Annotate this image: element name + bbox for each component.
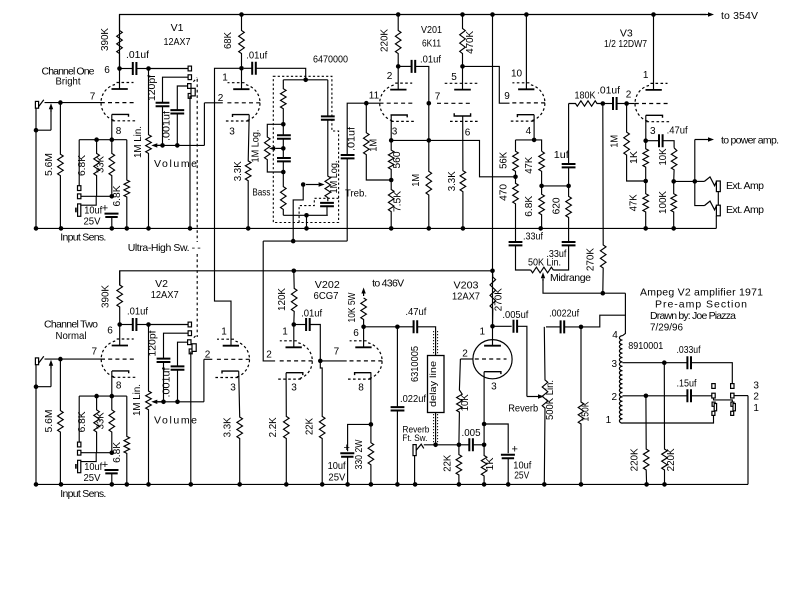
capacitor .01uf V201 interstage — [412, 60, 416, 73]
junction jack2 sleeve — [34, 384, 39, 389]
resistor 5.6M ch1 — [58, 103, 64, 229]
pole ultra-high switch ch1 — [188, 94, 191, 99]
gang link dash ch2 — [194, 334, 197, 338]
svg-text:3: 3 — [291, 383, 297, 394]
svg-text:2: 2 — [753, 391, 759, 402]
svg-text:V1: V1 — [171, 22, 184, 34]
capacitor 120pf ch1 — [156, 103, 170, 106]
svg-text:.001uf: .001uf — [161, 111, 172, 141]
junction mixer rail/treble — [291, 239, 296, 244]
resistor 330 2W — [368, 424, 374, 484]
wire contact B to 33K bottom — [81, 195, 112, 197]
junction ground1/jack — [34, 226, 39, 231]
junction bus2/33K — [110, 394, 115, 399]
svg-text:1M Log.: 1M Log. — [329, 161, 340, 194]
wire pot top to .0022uf — [546, 326, 561, 328]
wire mixer rail to V202a grid — [263, 241, 275, 361]
junction ground1/6.8K V201 — [538, 226, 543, 231]
wiper arrow bass — [275, 147, 281, 149]
wire out contact B to ground riser — [734, 395, 748, 397]
svg-text:1: 1 — [282, 327, 288, 338]
svg-text:Bass: Bass — [252, 187, 270, 199]
svg-text:3: 3 — [230, 383, 236, 394]
wire B+ rail 354V — [120, 15, 707, 69]
contact ultra-high A ch1 — [188, 66, 191, 71]
svg-text:to power amp.: to power amp. — [721, 135, 779, 147]
resistor 22K V203 — [456, 445, 462, 485]
svg-text:1K: 1K — [485, 457, 496, 471]
pole input-sens switch ch1 — [78, 204, 81, 216]
junction pin3/220K — [662, 360, 667, 365]
capacitor .001uf ch1 — [170, 110, 184, 113]
svg-text:47K: 47K — [629, 194, 640, 211]
wire plate V203 — [492, 326, 494, 345]
junction cathode V202b — [369, 422, 374, 427]
svg-text:11: 11 — [369, 91, 380, 102]
contact ultra-high C ch2 — [188, 340, 191, 345]
svg-text:6310005: 6310005 — [410, 345, 421, 382]
junction node2 V201 plate — [396, 64, 401, 69]
svg-text:390K: 390K — [101, 285, 112, 308]
svg-text:to 354V: to 354V — [721, 10, 758, 22]
capacitor tone C1 — [277, 135, 291, 138]
potentiometer 1M Log Treble — [325, 120, 331, 202]
junction B+ rail/120K — [292, 269, 297, 274]
junction 47K/6.8K — [539, 184, 544, 189]
svg-text:8: 8 — [358, 383, 364, 394]
wiper arrow treble — [306, 184, 319, 186]
wire grid V2b — [204, 358, 212, 360]
jack tip contact arrow — [50, 109, 52, 112]
svg-text:.15uf: .15uf — [677, 377, 697, 389]
wire treble wiper jog down — [293, 185, 303, 242]
junction ground2/2.2K — [284, 482, 289, 487]
junction node1 V1b plate — [239, 66, 244, 71]
svg-text:47K: 47K — [524, 156, 535, 173]
junction 120pf/wiper ch2 — [161, 400, 166, 405]
wire tone top bus — [283, 79, 328, 81]
wire contact C to .001uf ch2 — [178, 342, 188, 366]
wire reverb out to xfmr node — [581, 315, 625, 327]
wire grid V1b to wiper bus — [203, 103, 205, 146]
resistor 1K V203 — [481, 445, 487, 485]
svg-text:500K Lin.: 500K Lin. — [545, 380, 556, 420]
triode V201 third — [510, 83, 545, 121]
resistor 390K ch1 — [117, 15, 123, 69]
junction ground2/150K — [579, 482, 584, 487]
junction grid V202b/22K — [318, 359, 323, 364]
resistor 560 — [388, 140, 394, 180]
wire .15uf to contact — [692, 395, 712, 397]
svg-text:3: 3 — [229, 127, 235, 138]
svg-text:2.2K: 2.2K — [268, 417, 279, 437]
svg-text:56K: 56K — [499, 151, 510, 168]
capacitor .01uf ch2 coupling — [133, 318, 137, 331]
junction jack sleeve — [34, 128, 39, 133]
capacitor .022uf — [391, 407, 405, 410]
capacitor .01uf ch1 coupling — [133, 62, 137, 75]
wire cathode pin4 — [533, 115, 535, 140]
svg-text:22K: 22K — [443, 454, 454, 471]
svg-text:.47uf: .47uf — [667, 125, 688, 137]
junction grid V3/1M — [624, 101, 629, 106]
junction grid/5.6M — [58, 100, 63, 105]
svg-text:1: 1 — [606, 415, 612, 426]
svg-text:3: 3 — [612, 359, 618, 370]
resistor 6.8K V201 — [539, 186, 545, 229]
junction ground2/6.8K — [125, 482, 130, 487]
wire treble cap to V201 grid — [347, 103, 379, 155]
triode V1a — [101, 83, 136, 121]
wire .0022uf to 150K — [564, 326, 581, 328]
wire .005 to cathode chain — [473, 444, 484, 446]
coax shield upper — [434, 331, 438, 355]
wire cathode V201a — [390, 115, 392, 141]
wire pole ch2 to ground — [190, 352, 192, 485]
wire pole ch1 to ground — [189, 96, 191, 229]
gang line ultra-high upper — [196, 79, 198, 242]
svg-text:10K: 10K — [658, 148, 669, 165]
resistor 2.2K V202a cathode — [284, 373, 290, 485]
svg-text:10uf: 10uf — [328, 460, 346, 472]
capacitor .005 — [469, 438, 473, 451]
svg-text:3.3K: 3.3K — [233, 161, 244, 181]
wire cathode to 1K — [483, 424, 485, 445]
svg-text:7: 7 — [92, 347, 98, 358]
svg-text:33K: 33K — [95, 412, 106, 429]
wire node1 to cap — [244, 67, 252, 69]
svg-text:1: 1 — [753, 403, 759, 414]
svg-text:.005uf: .005uf — [502, 309, 528, 321]
wire cap to volume top — [136, 68, 148, 70]
svg-text:Ampeg V2 amplifier 1971: Ampeg V2 amplifier 1971 — [640, 287, 763, 299]
svg-text:7: 7 — [334, 347, 340, 358]
jack Ext Amp upper — [704, 177, 716, 186]
wire plate pin5 — [462, 66, 464, 89]
svg-text:V202: V202 — [315, 279, 340, 291]
svg-text:+: + — [102, 459, 108, 471]
svg-text:5: 5 — [451, 72, 457, 83]
wire ftsw jack to ground — [414, 456, 416, 485]
junction tone caps mid — [281, 146, 286, 151]
svg-text:1M Lin.: 1M Lin. — [132, 384, 143, 416]
resistor 7.5K — [388, 180, 394, 228]
wire bus2 to contact A — [78, 396, 80, 442]
resistor 220K a — [662, 363, 668, 485]
contact ultra-high B ch1 — [188, 75, 191, 80]
junction .001uf/wiper — [175, 143, 180, 148]
resistor 220K b — [643, 396, 649, 485]
contact input-sens B ch1 — [78, 194, 81, 199]
wire delay line output — [435, 413, 437, 445]
svg-text:1M Lin.: 1M Lin. — [133, 126, 144, 158]
pole out left — [712, 402, 715, 406]
contact input-sens B ch2 — [78, 450, 81, 455]
svg-text:1: 1 — [643, 70, 649, 81]
svg-text:Treb.: Treb. — [345, 187, 367, 199]
svg-text:.0022uf: .0022uf — [549, 307, 579, 319]
potentiometer 1M Lin Volume ch2 — [146, 325, 152, 485]
tube V203 envelope circle — [473, 340, 512, 379]
svg-text:Ft. Sw.: Ft. Sw. — [402, 433, 427, 444]
wire node2 to cap — [400, 65, 412, 67]
svg-text:120K: 120K — [277, 288, 288, 311]
dotted box tone network 6470000 — [273, 76, 338, 222]
wire ch2 B+ rail — [120, 271, 493, 285]
svg-text:1M: 1M — [609, 135, 620, 148]
delay line box — [428, 356, 445, 413]
svg-text:6.8K: 6.8K — [524, 195, 535, 216]
coax shield lower — [434, 414, 438, 444]
svg-text:150K: 150K — [581, 401, 592, 421]
wire node6 to cap ch2 — [121, 324, 133, 326]
capacitor tone C4 — [320, 203, 334, 206]
capacitor .33uf right — [562, 242, 576, 245]
wire cathode to 10uf V203 — [484, 424, 508, 453]
svg-text:220K: 220K — [380, 29, 391, 52]
capacitor 10uf 25V V202 — [340, 453, 354, 456]
svg-text:Input Sens.: Input Sens. — [60, 488, 106, 500]
svg-text:25V: 25V — [84, 216, 101, 228]
resistor 10K V3 — [671, 148, 677, 182]
svg-text:1/2 12DW7: 1/2 12DW7 — [604, 38, 647, 50]
wire .001uf to wiper ch2 — [177, 370, 179, 402]
potentiometer 500K Lin Reverb — [542, 327, 548, 485]
junction bus/33K ch1 — [110, 137, 115, 142]
svg-text:470: 470 — [499, 183, 510, 201]
junction 560/7.5K — [389, 178, 394, 183]
resistor 47K V201 — [539, 151, 545, 186]
svg-text:.01uf: .01uf — [420, 54, 441, 66]
svg-text:22K: 22K — [305, 418, 316, 435]
resistor 220K — [395, 15, 401, 67]
wire 620 chain to .33uf2 — [568, 228, 570, 242]
svg-text:2: 2 — [626, 90, 632, 101]
resistor 6.8K first ch1 — [94, 140, 100, 197]
wire xfmr pin1 to pole — [623, 415, 714, 423]
svg-text:8910001: 8910001 — [628, 340, 663, 352]
junction ground2/22K V203 — [457, 482, 462, 487]
svg-text:3.3K: 3.3K — [222, 417, 233, 437]
wire grid V1a pin7 — [45, 102, 102, 104]
svg-text:330 2W: 330 2W — [354, 439, 365, 470]
capacitor .005uf — [514, 320, 518, 333]
svg-text:7: 7 — [90, 92, 96, 103]
junction ground2/10uf V203 — [506, 482, 511, 487]
svg-text:2: 2 — [387, 71, 393, 82]
wire .033uf to contact — [692, 363, 732, 384]
svg-text:5.6M: 5.6M — [44, 410, 55, 433]
svg-text:6: 6 — [465, 128, 471, 139]
junction grid V201a — [364, 101, 369, 106]
junction ground1/7.5K — [389, 226, 394, 231]
junction ground1/5.6M — [59, 226, 64, 231]
capacitor .01uf V202 coupling — [306, 318, 310, 331]
capacitor tone C3 — [321, 116, 335, 119]
svg-text:100K: 100K — [658, 191, 669, 214]
svg-text:7: 7 — [435, 92, 441, 103]
svg-text:3: 3 — [491, 382, 497, 393]
junction node1 V203 plate — [490, 324, 495, 329]
junction node1 V202a plate — [292, 322, 297, 327]
wire grid V202b — [320, 360, 346, 362]
svg-text:4: 4 — [526, 126, 532, 137]
svg-text:6K11: 6K11 — [422, 37, 441, 49]
resistor 33K ch1 — [109, 140, 115, 197]
wire pole to 6.8K bottom ch2 — [81, 453, 96, 462]
jack2 tip contact arrow — [50, 366, 52, 369]
resistor 390K ch2 — [117, 271, 123, 325]
resistor 5.6M ch2 — [58, 359, 64, 484]
svg-text:.33uf: .33uf — [523, 231, 543, 243]
junction ground2/5.6M — [59, 482, 64, 487]
wire plate V2a — [119, 325, 121, 346]
wire tone C4 lead — [326, 206, 328, 215]
wire 10uf V203 to ground — [507, 458, 509, 484]
junction tone box top bus — [303, 78, 308, 83]
resistor 33K ch2 — [109, 396, 115, 453]
junction ground2/.022uf — [395, 482, 400, 487]
wire volume2 top to contact A — [150, 324, 188, 326]
svg-text:1: 1 — [480, 327, 486, 338]
wire ground rail ch1 — [36, 227, 716, 229]
wire jack2 sleeve — [36, 365, 51, 387]
wire 47K tap to 1uf — [542, 185, 569, 187]
junction pin4 cathode — [532, 138, 537, 143]
resistor 1M V3 grid — [624, 104, 646, 182]
junction node6 V202b plate — [361, 325, 366, 330]
contact out right A — [731, 384, 734, 389]
wire 1uf bottom lead — [568, 167, 570, 186]
wire pin4 to 47K — [534, 140, 542, 151]
wire grid V203 — [460, 358, 473, 360]
wire grid V1b — [204, 102, 222, 104]
svg-text:270K: 270K — [585, 248, 596, 271]
svg-text:+: + — [512, 444, 518, 456]
wire .005uf down to reverb wiper — [517, 326, 527, 396]
wire cap into tone box — [256, 68, 306, 80]
resistor 1K V3 — [643, 141, 649, 181]
svg-text:8: 8 — [116, 381, 122, 392]
svg-text:to 436V: to 436V — [372, 278, 404, 290]
capacitor .01uf V1b out — [252, 62, 256, 75]
wire riser to power amp — [694, 140, 696, 182]
arrow to 354V — [700, 14, 708, 16]
potentiometer 1M Lin Volume ch1 — [146, 69, 152, 229]
svg-text:50K Lin.: 50K Lin. — [528, 257, 561, 269]
junction bus/6.8K ch1 — [94, 137, 99, 142]
wire pin4 to 56K — [516, 139, 535, 141]
triode V201 middle — [437, 83, 479, 121]
junction ground1/100K — [671, 226, 676, 231]
wire ftsw to 10K bottom — [424, 444, 459, 446]
wire cathode V2a — [111, 371, 113, 396]
pole input-sens switch ch2 — [78, 460, 81, 472]
dotted inner box treble cap — [299, 198, 339, 222]
wire contact B to 120pf — [163, 77, 189, 102]
svg-text:3: 3 — [650, 126, 656, 137]
triode V2a — [101, 339, 136, 377]
wire V3 feed node down to xfmr pin4 — [623, 293, 626, 336]
jack Reverb Ft Sw — [413, 445, 416, 456]
wiper arrow reverb — [527, 396, 538, 398]
junction bus2/6.8K — [94, 394, 99, 399]
svg-text:120pf: 120pf — [147, 330, 158, 356]
wiper arrow volume ch2 — [157, 401, 163, 403]
triode V203 internals — [475, 346, 507, 374]
wiper arrow volume ch1 — [157, 144, 163, 146]
contact ultra-high A ch2 — [188, 322, 191, 327]
svg-text:470K: 470K — [465, 30, 476, 53]
triode V1b — [226, 83, 261, 121]
resistor 10K 5W — [361, 298, 367, 327]
wire grid V2b to wiper bus — [203, 359, 205, 402]
junction cathode V3 — [643, 138, 648, 143]
wire jack2 sleeve to ground — [35, 387, 37, 485]
wire wiper bus ch2 — [157, 401, 204, 403]
junction tone bottom/ground — [304, 213, 309, 218]
wire .47uf to delay line — [417, 327, 435, 356]
wire tone C2 top lead — [282, 150, 284, 158]
wire node6 to cap — [121, 68, 133, 70]
wire pole to 6.8K bottom ch1 — [81, 196, 96, 205]
svg-text:180K: 180K — [575, 90, 596, 102]
wire jack sleeve — [36, 108, 51, 130]
wire tone bottom to ground — [306, 215, 308, 228]
svg-text:1M: 1M — [411, 174, 422, 187]
wire plate V201a — [397, 66, 399, 89]
junction 33K/10uf ch2 — [110, 450, 115, 455]
svg-text:220K: 220K — [666, 448, 677, 471]
junction ground1/1M — [427, 226, 432, 231]
svg-text:10K: 10K — [460, 394, 471, 411]
svg-text:5.6M: 5.6M — [44, 153, 55, 176]
wire tone bottom bus — [283, 214, 328, 216]
junction 180K/.01uf V3 — [601, 101, 606, 106]
svg-text:1M Log.: 1M Log. — [251, 130, 262, 163]
resistor 270K V203 plate — [490, 272, 496, 327]
svg-text:12AX7: 12AX7 — [452, 290, 480, 302]
junction ground2/500K — [542, 482, 547, 487]
wire 10K to .005 — [460, 444, 469, 446]
svg-text:Drawn by: Joe Piazza: Drawn by: Joe Piazza — [650, 310, 736, 322]
junction ground2/ftsw — [413, 482, 418, 487]
junction 1uf/620 — [566, 184, 571, 189]
junction node6 V1a plate — [117, 66, 122, 71]
resistor 3.3K V1b cathode — [245, 115, 251, 229]
junction ground2/jack2 — [34, 482, 39, 487]
wire midrange wiper to V3 feed — [543, 279, 625, 293]
capacitor .01uf treble out — [346, 158, 348, 241]
wire node1 to .005uf — [493, 325, 512, 327]
resistor 1M V201a grid leak — [364, 103, 392, 180]
wire grid V2a pin7 — [45, 358, 102, 360]
wire cathode bus V201 — [391, 139, 462, 141]
wire 180K to cap V3 — [604, 103, 613, 105]
junction cathode bus/1M — [427, 138, 432, 143]
resistor 270K V3 feed — [600, 104, 606, 294]
svg-text:10K 5W: 10K 5W — [347, 292, 358, 323]
svg-text:Pre-amp Section: Pre-amp Section — [655, 299, 747, 311]
wire ground rail up to jack sleeve — [715, 216, 717, 229]
resistor 6.8K third ch2 — [124, 396, 130, 484]
wire cathode cluster bus ch1 — [79, 139, 127, 141]
gang link dash ch1 — [193, 78, 197, 82]
wire plate V202a — [293, 325, 295, 348]
svg-text:.47uf: .47uf — [405, 306, 426, 318]
junction ground1/3.3K V201 — [461, 226, 466, 231]
svg-text:Channel Two: Channel Two — [44, 319, 98, 331]
